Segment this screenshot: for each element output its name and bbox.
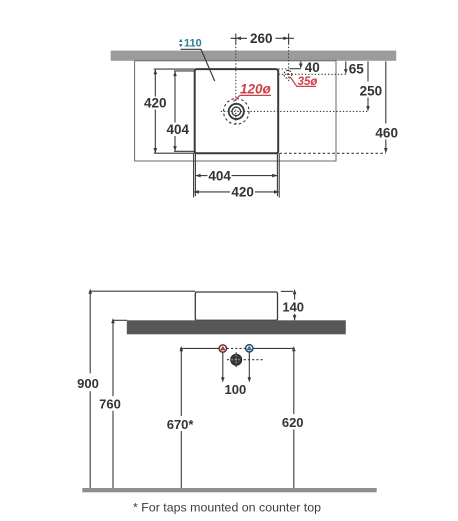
svg-text:110: 110 [184, 37, 202, 49]
svg-text:* For taps mounted on counter: * For taps mounted on counter top [133, 501, 321, 515]
svg-text:120ø: 120ø [240, 82, 272, 97]
svg-text:404: 404 [208, 168, 231, 183]
svg-text:900: 900 [77, 376, 99, 391]
svg-text:404: 404 [167, 122, 190, 137]
svg-text:620: 620 [282, 415, 304, 430]
svg-text:460: 460 [375, 125, 398, 140]
svg-text:670*: 670* [167, 417, 195, 432]
svg-text:100: 100 [225, 382, 247, 397]
svg-text:760: 760 [99, 397, 121, 412]
svg-text:40: 40 [305, 60, 320, 75]
svg-text:140: 140 [282, 300, 304, 315]
svg-text:260: 260 [250, 31, 273, 46]
svg-text:420: 420 [144, 96, 167, 111]
svg-text:65: 65 [349, 62, 365, 77]
svg-text:420: 420 [231, 185, 254, 200]
svg-text:250: 250 [360, 83, 383, 98]
